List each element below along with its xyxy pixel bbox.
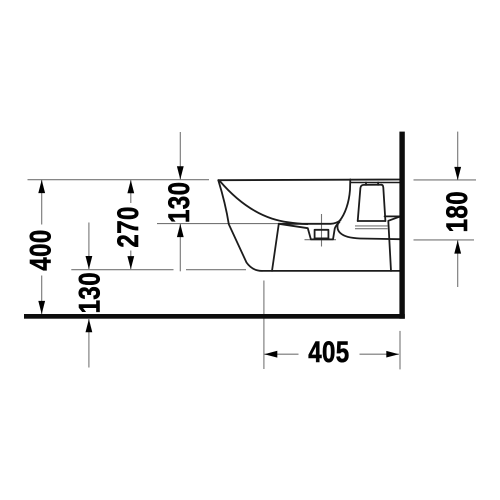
svg-text:405: 405 <box>308 336 349 369</box>
svg-text:130: 130 <box>73 272 106 313</box>
svg-text:270: 270 <box>112 206 145 247</box>
svg-text:400: 400 <box>24 229 57 270</box>
svg-text:180: 180 <box>441 191 474 232</box>
svg-text:130: 130 <box>163 182 196 223</box>
